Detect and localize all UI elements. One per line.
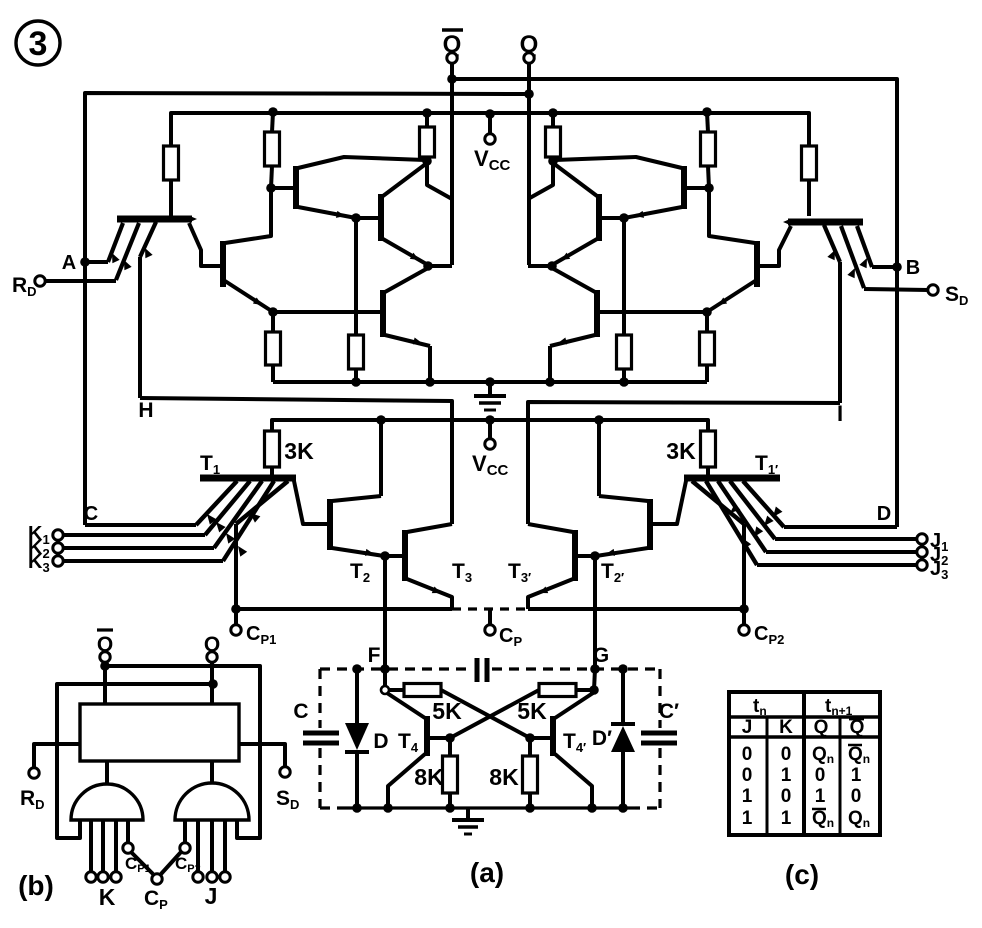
wire T1' collector: [652, 481, 686, 524]
node R3 bottom (Q-bar output node): [422, 156, 432, 166]
resistor 5K (left): [389, 688, 404, 692]
svg-text:3K: 3K: [666, 438, 696, 464]
transistor Q5 (left lower output): [380, 290, 386, 337]
svg-text:Q: Q: [814, 717, 829, 738]
node 8K right bottom: [525, 803, 535, 813]
wire T1' emitter to D line: [743, 481, 784, 527]
terminal CP: [488, 609, 492, 625]
node T4 base: [445, 733, 455, 743]
resistor 3K' (right): [701, 431, 716, 467]
wire T1' clock emitter to CP2: [692, 481, 744, 524]
svg-text:1: 1: [851, 765, 862, 786]
svg-text:8K: 8K: [489, 764, 519, 790]
wire node I horizontal: [528, 402, 840, 524]
wire T2 emitter: [332, 548, 384, 556]
svg-text:F: F: [368, 644, 381, 667]
svg-text:D: D: [877, 503, 891, 525]
svg-text:1: 1: [781, 808, 792, 829]
node diode branch tops: [352, 664, 362, 674]
svg-text:Q: Q: [850, 717, 865, 738]
node R3' bottom (Q output node): [548, 156, 558, 166]
svg-text:0: 0: [742, 765, 753, 786]
capacitor coupling (center top): [475, 658, 480, 682]
wire collector of input transistor B: [759, 226, 791, 266]
transistor Q4' (right upper output): [596, 194, 602, 241]
transistor T1' (multi-emitter bar): [684, 475, 780, 482]
node Vcc bus 2 taps: [376, 415, 386, 425]
resistor 8K (left): [448, 738, 452, 756]
svg-text:J: J: [742, 717, 753, 738]
transistor Q3' (right phase splitter): [681, 166, 687, 209]
node Q-bar (b): [100, 661, 110, 671]
wire emitter to node I riser: [824, 225, 840, 262]
terminal Vcc (top): [488, 114, 492, 134]
node F inner: [383, 669, 387, 686]
wire T3 emitter: [407, 579, 452, 609]
resistor R3' (right output pull-up): [551, 113, 555, 127]
capacitor C (left): [303, 731, 339, 736]
ground (a): [466, 808, 470, 818]
resistor R2 (left): [272, 112, 273, 132]
transistor Q5' (right lower output): [594, 290, 600, 337]
svg-text:0: 0: [781, 744, 792, 765]
resistor R5' (right): [617, 335, 632, 369]
dashed box (a) top edge: [320, 667, 472, 670]
wire T2' emitter: [596, 548, 648, 556]
terminal J1: [730, 481, 775, 539]
resistor R4' (right): [705, 312, 709, 332]
svg-text:0: 0: [851, 786, 862, 807]
svg-text:C′: C′: [659, 700, 679, 723]
wire Q vertical: [527, 63, 531, 265]
terminal Q-bar (b): [97, 628, 113, 631]
node base of Q3 right: [704, 183, 714, 193]
resistor R3 (left output pull-up): [425, 113, 429, 127]
wire T4 emitter: [388, 754, 425, 808]
AND gate K (left): [105, 761, 109, 784]
node B: [892, 262, 902, 272]
svg-text:H: H: [138, 399, 153, 422]
wire node C line: [85, 523, 196, 527]
transistor T3: [385, 554, 403, 558]
node G riser top: [590, 551, 600, 561]
node CP2: [739, 604, 749, 614]
node Q-bar junction: [447, 74, 457, 84]
node 8K left bottom: [445, 803, 455, 813]
node right output emitter: [547, 261, 557, 271]
wire emitter to RD: [116, 223, 139, 280]
resistor 5K (right): [539, 684, 576, 697]
flip-flop box (b): [80, 704, 239, 761]
wire T1 clock emitter to CP1: [236, 481, 288, 524]
transistor input multi-emitter A (bar): [117, 216, 192, 223]
node F riser top: [380, 551, 390, 561]
svg-text:G: G: [593, 644, 609, 667]
terminal CP2: [742, 609, 746, 625]
wire emitter rail (center): [273, 380, 707, 384]
node A: [80, 257, 90, 267]
wire emitter to SD: [841, 226, 864, 288]
node left output emitter: [423, 261, 433, 271]
dashed box (a) left edge: [318, 669, 321, 728]
wire feedback Q to K gate: [57, 684, 213, 838]
node emitter rail junctions: [351, 377, 361, 387]
node emitter Q3 left: [351, 213, 361, 223]
svg-text:C: C: [84, 503, 98, 525]
node emitter Q2 right: [702, 307, 712, 317]
node Vcc bus taps: [268, 107, 278, 117]
node T4 emitter bottom: [383, 803, 393, 813]
svg-text:J: J: [205, 883, 218, 909]
terminal J2: [718, 481, 766, 552]
wire emitter to node H riser: [140, 222, 156, 257]
resistor 8K (right): [528, 738, 532, 756]
svg-text:K: K: [779, 717, 793, 738]
transistor Q2' (right level shifter): [754, 241, 760, 287]
transistor T2: [327, 499, 333, 550]
CP2 pin (b): [183, 820, 187, 843]
svg-text:K: K: [99, 884, 116, 910]
terminal SD: [864, 289, 928, 290]
terminal RD: [45, 279, 116, 283]
svg-text:I: I: [837, 401, 843, 426]
svg-text:3: 3: [29, 25, 48, 63]
node F: [380, 664, 390, 674]
svg-text:8K: 8K: [414, 764, 444, 790]
svg-text:A: A: [62, 252, 76, 274]
wire CP2 line: [528, 607, 744, 611]
wire Vcc bus 2: [272, 420, 708, 431]
svg-text:1: 1: [742, 786, 753, 807]
wire F vertical: [383, 556, 387, 669]
transistor T3': [577, 554, 595, 558]
resistor R2' (right): [707, 112, 708, 132]
wire T1 collector: [294, 481, 328, 524]
node CP1: [231, 604, 241, 614]
transistor Q3 (left phase splitter): [293, 166, 299, 209]
node G: [590, 664, 600, 674]
wire node H horizontal: [140, 398, 452, 524]
dashed box (a) right edge: [658, 669, 661, 728]
diode D': [621, 669, 625, 726]
wire Q-bar vertical: [450, 63, 454, 265]
node diode branch bottoms: [352, 803, 362, 813]
wire to resistor R5: [354, 218, 358, 335]
terminal RD (b): [29, 768, 39, 778]
wire cross-coupling right-to-left: [450, 690, 539, 738]
transistor input multi-emitter B (bar): [788, 219, 863, 226]
transistor T2': [647, 499, 653, 550]
node Q (b): [208, 679, 218, 689]
K input pins: [89, 820, 93, 872]
wire top rail left (Q feedback): [85, 93, 528, 525]
dashed box (a) bottom edge: [320, 806, 345, 809]
svg-text:(c): (c): [785, 859, 819, 890]
resistor R5 (left): [349, 335, 364, 369]
wire CP dashed segment: [452, 607, 528, 610]
capacitor C' (right): [641, 731, 677, 736]
svg-text:0: 0: [781, 786, 792, 807]
wire collector of input transistor A: [189, 223, 221, 266]
CP clock V wires (b): [131, 852, 153, 874]
svg-text:1: 1: [815, 786, 826, 807]
node Q junction: [524, 89, 534, 99]
wire T2' collector riser: [597, 420, 601, 496]
svg-text:5K: 5K: [517, 698, 547, 724]
wire top rail right (Q-bar feedback): [452, 79, 897, 527]
wire Vcc bus: [171, 113, 809, 146]
transistor T4: [424, 716, 430, 756]
wire to resistor R5': [622, 218, 626, 335]
terminal Q-bar (top): [442, 28, 463, 32]
transistor T4': [550, 716, 556, 756]
ground (center): [488, 382, 492, 394]
resistor R1' (right pull-up): [802, 146, 817, 180]
AND gate J (right): [210, 761, 214, 784]
node T4' emitter bottom: [587, 803, 597, 813]
svg-text:5K: 5K: [432, 698, 462, 724]
svg-text:B: B: [906, 257, 920, 279]
node emitter Q2 left: [268, 307, 278, 317]
CP1 pin (b): [126, 820, 130, 843]
resistor 3K (left): [265, 431, 280, 467]
wire node D line: [784, 525, 897, 529]
wire feedback Q-bar to J gate: [105, 666, 260, 838]
wire CP1 line: [236, 607, 452, 611]
figure number 3 (circled): [16, 21, 60, 65]
wire T3' emitter: [528, 579, 573, 609]
terminal K1: [205, 481, 250, 535]
J input pins: [196, 820, 200, 872]
node T4' base: [525, 733, 535, 743]
terminal SD (b): [280, 767, 290, 777]
terminal J3: [706, 481, 757, 565]
svg-text:0: 0: [815, 765, 826, 786]
diode D: [355, 669, 359, 723]
svg-text:3K: 3K: [284, 438, 314, 464]
node G inner: [589, 685, 599, 695]
wire T4' emitter: [555, 754, 592, 808]
wire G vertical: [593, 556, 597, 669]
svg-text:D: D: [373, 730, 388, 753]
wire emitter to node A: [108, 223, 123, 262]
terminal K2: [214, 481, 262, 548]
svg-text:(a): (a): [470, 857, 504, 888]
wire T1 emitter to C line: [196, 481, 237, 525]
transistor T1 (multi-emitter bar): [200, 475, 296, 482]
terminal K3: [223, 481, 274, 561]
node base of Q3 left: [266, 183, 276, 193]
svg-text:0: 0: [742, 744, 753, 765]
svg-text:(b): (b): [18, 870, 54, 901]
svg-text:C: C: [293, 700, 308, 723]
resistor R1 (left pull-up): [164, 146, 179, 180]
transistor Q4 (left upper output): [378, 194, 384, 241]
svg-text:1: 1: [742, 808, 753, 829]
svg-text:1: 1: [781, 765, 792, 786]
wire emitter to node B: [857, 226, 872, 267]
wire T2 collector riser: [379, 420, 383, 496]
transistor Q2 (left level shifter): [220, 241, 226, 287]
svg-text:D′: D′: [592, 727, 612, 750]
node emitter Q3 right: [619, 213, 629, 223]
wire cross-coupling left-to-right: [441, 690, 530, 738]
terminal CP1: [234, 609, 238, 625]
truth table (c) frame: [729, 692, 880, 835]
resistor R4 (left): [271, 312, 275, 332]
terminal Vcc (middle): [488, 420, 492, 439]
